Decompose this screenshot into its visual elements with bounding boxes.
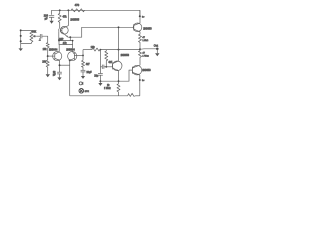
svg-text:10k: 10k xyxy=(91,46,96,49)
wire Q1 emitter run then up to base bus xyxy=(68,27,134,37)
wire jack to pot bottom xyxy=(21,42,32,43)
svg-text:10µF: 10µF xyxy=(86,72,92,74)
wire Q5 emitter down to rail xyxy=(139,75,141,96)
resistor R1 (top rail, horizontal) xyxy=(71,9,85,12)
ground below C1 xyxy=(50,21,54,24)
svg-text:10k: 10k xyxy=(43,48,48,51)
node rail junction A xyxy=(59,9,61,11)
transistor Q5 xyxy=(132,65,142,75)
svg-text:10µ: 10µ xyxy=(94,75,99,77)
wire C6 down leg xyxy=(99,67,101,74)
svg-text:9v: 9v xyxy=(142,17,145,19)
svg-text:2N3565: 2N3565 xyxy=(70,18,79,21)
svg-text:9v: 9v xyxy=(142,80,145,82)
svg-text:4k7: 4k7 xyxy=(86,63,91,66)
resistor R7 (4k7 Q4 bias) xyxy=(105,50,108,67)
svg-text:Out: Out xyxy=(154,44,158,48)
wire drive to Q5 base xyxy=(100,70,132,81)
node base bus junction xyxy=(118,26,120,28)
wire top supply rail xyxy=(52,10,140,16)
resistor R8 (1k 1W) xyxy=(117,84,120,96)
svg-text:1.5kΩ: 1.5kΩ xyxy=(142,40,148,42)
node divider junction xyxy=(47,55,49,57)
wire C6 column xyxy=(99,50,101,67)
svg-text:47: 47 xyxy=(142,53,145,55)
svg-text:50K: 50K xyxy=(32,31,37,34)
svg-text:µF: µF xyxy=(53,75,56,77)
node C6 bottom junction xyxy=(99,80,101,82)
capacitor C5 (10uF) xyxy=(81,69,86,71)
svg-text:10: 10 xyxy=(53,72,56,74)
ground below input jack xyxy=(19,48,23,51)
svg-text:µF: µF xyxy=(45,18,48,21)
wire output line xyxy=(140,48,157,51)
wire Q3 base stub to bias column xyxy=(74,54,83,56)
resistor R5 (4k7) xyxy=(82,60,85,70)
wire down into module box xyxy=(69,37,71,40)
capacitor C2 (input coupling at Q1 base) xyxy=(58,29,60,32)
svg-text:1k: 1k xyxy=(107,85,110,87)
svg-text:.1: .1 xyxy=(39,40,42,42)
wire Q1 collector to rail xyxy=(67,10,69,25)
transistor Q2 xyxy=(53,52,62,61)
capacitor C4 (10uF Q2 emitter bypass) xyxy=(57,71,62,73)
node output terminal xyxy=(156,47,159,50)
node main bus at C6 column xyxy=(100,49,102,51)
wire Q2 collector to box xyxy=(58,45,60,52)
wire main bus (mid horizontal) xyxy=(83,49,92,51)
wire Q6 collector to rail xyxy=(139,10,141,23)
node rail junction B xyxy=(67,9,69,11)
node main bus at Q4 collector xyxy=(118,49,120,51)
wire Q4 collector up through buses xyxy=(118,27,120,61)
wire main bus continue xyxy=(100,49,140,51)
resistor R10 (to Q5 collector) xyxy=(139,49,142,65)
svg-text:2N3644: 2N3644 xyxy=(66,49,75,52)
potentiometer VR1 50K xyxy=(30,32,33,42)
svg-text:SPK: SPK xyxy=(85,91,90,93)
wire C2 left plate down to box xyxy=(58,32,60,41)
node R7 base junction xyxy=(105,66,107,68)
speaker jack glyph xyxy=(79,82,82,85)
wire emitter bus xyxy=(60,64,70,66)
wire Q3 collector to box xyxy=(72,45,74,52)
wire jack to pot top xyxy=(21,30,32,32)
svg-text:47k: 47k xyxy=(63,16,68,19)
module box U1 xyxy=(59,41,73,45)
wire Q2 emitter down xyxy=(59,61,61,73)
node emitter/drive junction xyxy=(118,80,120,82)
resistor R4 (divider lower, 10k) xyxy=(46,60,49,74)
resistor R9 (Q6 emitter) xyxy=(139,32,142,50)
wire C3 to divider xyxy=(42,36,48,42)
svg-text:1 Watt: 1 Watt xyxy=(142,55,149,58)
resistor R6 (10k horizontal) xyxy=(92,48,100,51)
node box top-left xyxy=(58,40,60,42)
ground below C5 xyxy=(81,76,85,79)
node Q3 base junction xyxy=(82,54,84,56)
capacitor C3 (from pot wiper) xyxy=(37,35,40,37)
wire Q4 emitter down xyxy=(118,71,120,84)
svg-text:470: 470 xyxy=(75,3,80,7)
node bus junction xyxy=(59,64,61,66)
node supply tap xyxy=(139,15,141,17)
wire output ground leg xyxy=(156,49,158,54)
transistor Q4 xyxy=(112,61,122,71)
transistor Q3 (mirrored) xyxy=(68,52,77,61)
node Q5 emitter junction xyxy=(139,79,141,81)
node Q3 emitter junction xyxy=(69,59,71,61)
svg-text:2N3644: 2N3644 xyxy=(49,49,58,52)
svg-text:1 Watt: 1 Watt xyxy=(104,87,111,90)
ground below output xyxy=(155,53,159,56)
wire divider to Q2 base xyxy=(48,55,55,57)
wire bottom rail xyxy=(70,95,128,97)
svg-text:47: 47 xyxy=(142,37,145,39)
resistor R11 (bottom rail horizontal) xyxy=(128,93,136,96)
svg-text:2N3053: 2N3053 xyxy=(143,27,152,30)
ground below C6 xyxy=(99,81,101,83)
capacitor C7 (coupling to Q4 base) xyxy=(100,66,102,68)
capacitor C6 xyxy=(98,73,103,75)
node output junction xyxy=(139,48,141,50)
wire bottom rail right end xyxy=(136,95,140,97)
svg-text:2N3053: 2N3053 xyxy=(142,69,151,72)
ground below C4 xyxy=(57,77,61,80)
wire Q3 emitter down to bottom rail xyxy=(69,60,71,95)
wire main bus left end down xyxy=(82,50,84,61)
input jack terminals xyxy=(20,30,22,48)
transistor Q1 xyxy=(60,26,68,34)
node box top-right xyxy=(72,40,74,42)
resistor R3 (divider upper, 10k) xyxy=(46,43,49,60)
capacitor C1 (220uF supply bypass) xyxy=(49,15,54,17)
transistor Q6 (top right) xyxy=(133,23,142,32)
resistor R2 (47k bias, vertical) xyxy=(58,10,61,29)
ground below R4 xyxy=(46,74,50,77)
svg-text:2N3053: 2N3053 xyxy=(121,54,130,57)
node emitter junction xyxy=(69,36,71,38)
